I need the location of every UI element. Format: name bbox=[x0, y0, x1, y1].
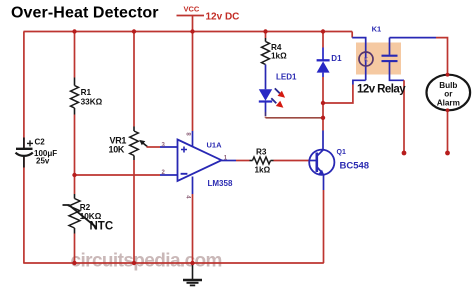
svg-text:VCC: VCC bbox=[184, 5, 200, 14]
LED light arrow 1 bbox=[275, 88, 280, 93]
relay contact plates bbox=[382, 55, 398, 57]
LED1 bbox=[259, 89, 272, 101]
relay coil K1 bbox=[359, 52, 373, 66]
svg-text:circuitspedia.com: circuitspedia.com bbox=[71, 250, 222, 271]
wire contact top to bulb bbox=[390, 37, 437, 39]
wire LED return to collector node bbox=[266, 117, 324, 118]
node relay return bbox=[321, 101, 325, 105]
svg-text:12v Relay: 12v Relay bbox=[357, 83, 406, 95]
node inverting input bbox=[72, 173, 76, 177]
terminal dot left bbox=[402, 151, 407, 156]
wire pin4 to ground rail bbox=[192, 194, 194, 263]
wire coil bottom return bbox=[353, 80, 366, 84]
wire VCC rail down to op-amp pin8 bbox=[192, 32, 194, 132]
node VR1 bottom bbox=[132, 261, 136, 265]
svg-text:Over-Heat Detector: Over-Heat Detector bbox=[11, 4, 159, 21]
Q1 base bar bbox=[315, 153, 318, 173]
wire output to R3 bbox=[236, 160, 250, 162]
svg-text:Q1: Q1 bbox=[337, 149, 346, 156]
svg-text:K1: K1 bbox=[372, 25, 382, 34]
wire LED1 cathode down bbox=[265, 102, 267, 113]
wire R4 to LED1 bbox=[265, 65, 267, 90]
ground bbox=[192, 263, 194, 280]
op-amp plus mark bbox=[181, 147, 187, 153]
wire R1 bottom to R2 top bbox=[74, 108, 76, 115]
Q1 base stub bbox=[309, 160, 316, 162]
resistor R1 bbox=[71, 86, 79, 109]
node LED return bbox=[321, 116, 325, 120]
op-amp U1A triangle bbox=[178, 140, 222, 182]
NTC diagonal line bbox=[63, 205, 97, 228]
wire R2 bottom lead bbox=[74, 228, 76, 234]
node VR1 top bbox=[132, 29, 136, 33]
op-amp minus mark bbox=[181, 173, 188, 175]
svg-text:R4: R4 bbox=[271, 43, 282, 52]
node bulb bottom bbox=[446, 108, 450, 112]
node VCC bbox=[190, 29, 194, 33]
pin 2 stub bbox=[160, 174, 178, 176]
svg-text:NTC: NTC bbox=[90, 221, 114, 233]
wire R1 top lead bbox=[74, 32, 76, 78]
Q1 collector stub bbox=[317, 131, 323, 156]
VCC symbol bbox=[177, 15, 205, 17]
wire bulb bottom to terminal bbox=[447, 110, 449, 152]
VR1 wiper arrow bbox=[141, 142, 147, 147]
resistor R2 NTC bbox=[69, 199, 80, 229]
relay contact top lead bbox=[389, 38, 391, 55]
capacitor C2 plus mark bbox=[27, 140, 33, 146]
wire Q1 emitter down bbox=[323, 175, 325, 190]
node D1 top bbox=[321, 29, 325, 33]
svg-text:Alarm: Alarm bbox=[437, 99, 460, 108]
potentiometer VR1 bbox=[130, 131, 139, 156]
svg-text:LED1: LED1 bbox=[276, 73, 297, 82]
svg-text:33KΩ: 33KΩ bbox=[81, 97, 103, 106]
node R1 top bbox=[72, 29, 76, 33]
node R2 bottom bbox=[72, 261, 76, 265]
pin 3 stub bbox=[160, 146, 178, 148]
wire D1 top lead bbox=[322, 32, 324, 48]
svg-text:C2: C2 bbox=[35, 138, 46, 147]
capacitor C2 bbox=[23, 138, 25, 168]
wire D1 anode to collector node bbox=[322, 77, 324, 131]
diode D1 bbox=[322, 48, 324, 61]
bulb ellipse bbox=[427, 75, 471, 111]
wire bottom ground rail bbox=[24, 262, 324, 264]
svg-text:12v DC: 12v DC bbox=[206, 11, 240, 22]
resistor R3 bbox=[253, 157, 271, 164]
pin 1 output stub bbox=[222, 160, 237, 162]
svg-text:D1: D1 bbox=[331, 54, 342, 63]
terminal dot right bbox=[445, 151, 450, 156]
svg-text:R3: R3 bbox=[256, 148, 267, 157]
pin 4 stub bbox=[192, 177, 194, 195]
relay contact bottom lead bbox=[390, 62, 405, 80]
svg-text:10KΩ: 10KΩ bbox=[80, 212, 102, 221]
wire VR1 bottom lead bbox=[133, 156, 135, 161]
Q1 emitter with arrow bbox=[317, 167, 322, 173]
wire VR1 top lead bbox=[133, 32, 135, 127]
wire top rail bbox=[24, 31, 353, 33]
svg-text:25v: 25v bbox=[36, 157, 50, 166]
pin 8 stub bbox=[192, 131, 194, 147]
svg-text:R2: R2 bbox=[80, 203, 91, 212]
node R4 top bbox=[263, 29, 267, 33]
wire R3 to Q1 base bbox=[271, 160, 274, 162]
svg-text:U1A: U1A bbox=[207, 140, 223, 149]
svg-text:LM358: LM358 bbox=[208, 179, 233, 188]
LED light arrow 2 bbox=[271, 98, 276, 103]
svg-text:K: K bbox=[364, 58, 369, 64]
svg-text:R1: R1 bbox=[81, 88, 92, 97]
wire rail corner to relay coil bbox=[351, 32, 353, 38]
wire R4 top lead bbox=[265, 32, 267, 39]
wire contact to output terminal bbox=[403, 80, 405, 152]
wire C2 to ground rail bbox=[23, 157, 25, 264]
svg-text:1kΩ: 1kΩ bbox=[271, 52, 287, 61]
wire inverting input node to pin2 bbox=[75, 174, 161, 176]
node bulb top bbox=[446, 73, 450, 77]
relay body K1 bbox=[356, 43, 401, 75]
svg-text:1kΩ: 1kΩ bbox=[255, 166, 271, 175]
wire wiper to pin3 bbox=[147, 146, 161, 148]
node pin4 ground bbox=[190, 261, 194, 265]
transistor Q1 circle bbox=[309, 150, 334, 175]
svg-text:10K: 10K bbox=[109, 145, 125, 155]
resistor R4 bbox=[262, 42, 270, 65]
svg-text:or: or bbox=[444, 89, 453, 98]
wire left column (VCC rail to C2) bbox=[23, 32, 25, 149]
svg-text:BC548: BC548 bbox=[340, 161, 370, 172]
